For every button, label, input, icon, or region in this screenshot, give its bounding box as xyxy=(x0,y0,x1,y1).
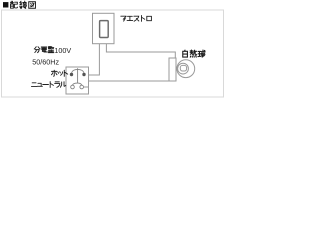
label: マエストロ (Maestro) xyxy=(121,15,152,21)
label: ニュートラル (neutral) xyxy=(31,82,65,88)
wire: S1 right pin down then east to lamp xyxy=(106,44,175,58)
dimmer switch S1 paddle (inner rectangle) xyxy=(100,21,109,38)
wire: panel neutral east to lamp socket xyxy=(89,80,177,82)
label: ホット (hot) xyxy=(52,70,68,76)
svg-text:100V: 100V xyxy=(54,46,71,55)
title: wiring-diagram heading square bullet xyxy=(3,2,8,7)
incandescent bulb DS1: inner globe xyxy=(178,63,189,74)
wire: S1 left pin down to panel hot terminal xyxy=(86,44,100,75)
svg-text:50/60Hz: 50/60Hz xyxy=(32,57,59,66)
breaker neutral pole arcs xyxy=(73,83,82,85)
breaker hot pole arcs xyxy=(72,69,85,73)
diagram frame xyxy=(2,10,224,97)
incandescent bulb DS1: glass envelope xyxy=(177,60,195,78)
breaker neutral pole: right contact circle xyxy=(80,85,84,89)
breaker common-trip link bar xyxy=(77,68,79,83)
distribution panel (breaker) box xyxy=(66,67,89,94)
breaker neutral pole: left contact circle xyxy=(71,85,75,89)
label: 分電盤100V xyxy=(34,47,54,53)
wire: neutral contact stub to panel edge xyxy=(84,86,89,88)
incandescent bulb DS1: filament capsule xyxy=(180,65,186,71)
breaker hot pole: left contact dot xyxy=(70,73,73,76)
breaker hot pole: right contact dot xyxy=(82,73,85,76)
label: 白熱球 (incandescent bulb) xyxy=(183,50,205,57)
lamp socket bracket xyxy=(169,58,176,81)
title text: 配線図 xyxy=(10,1,35,8)
dimmer switch S1 (Maestro) outer plate xyxy=(93,13,115,43)
